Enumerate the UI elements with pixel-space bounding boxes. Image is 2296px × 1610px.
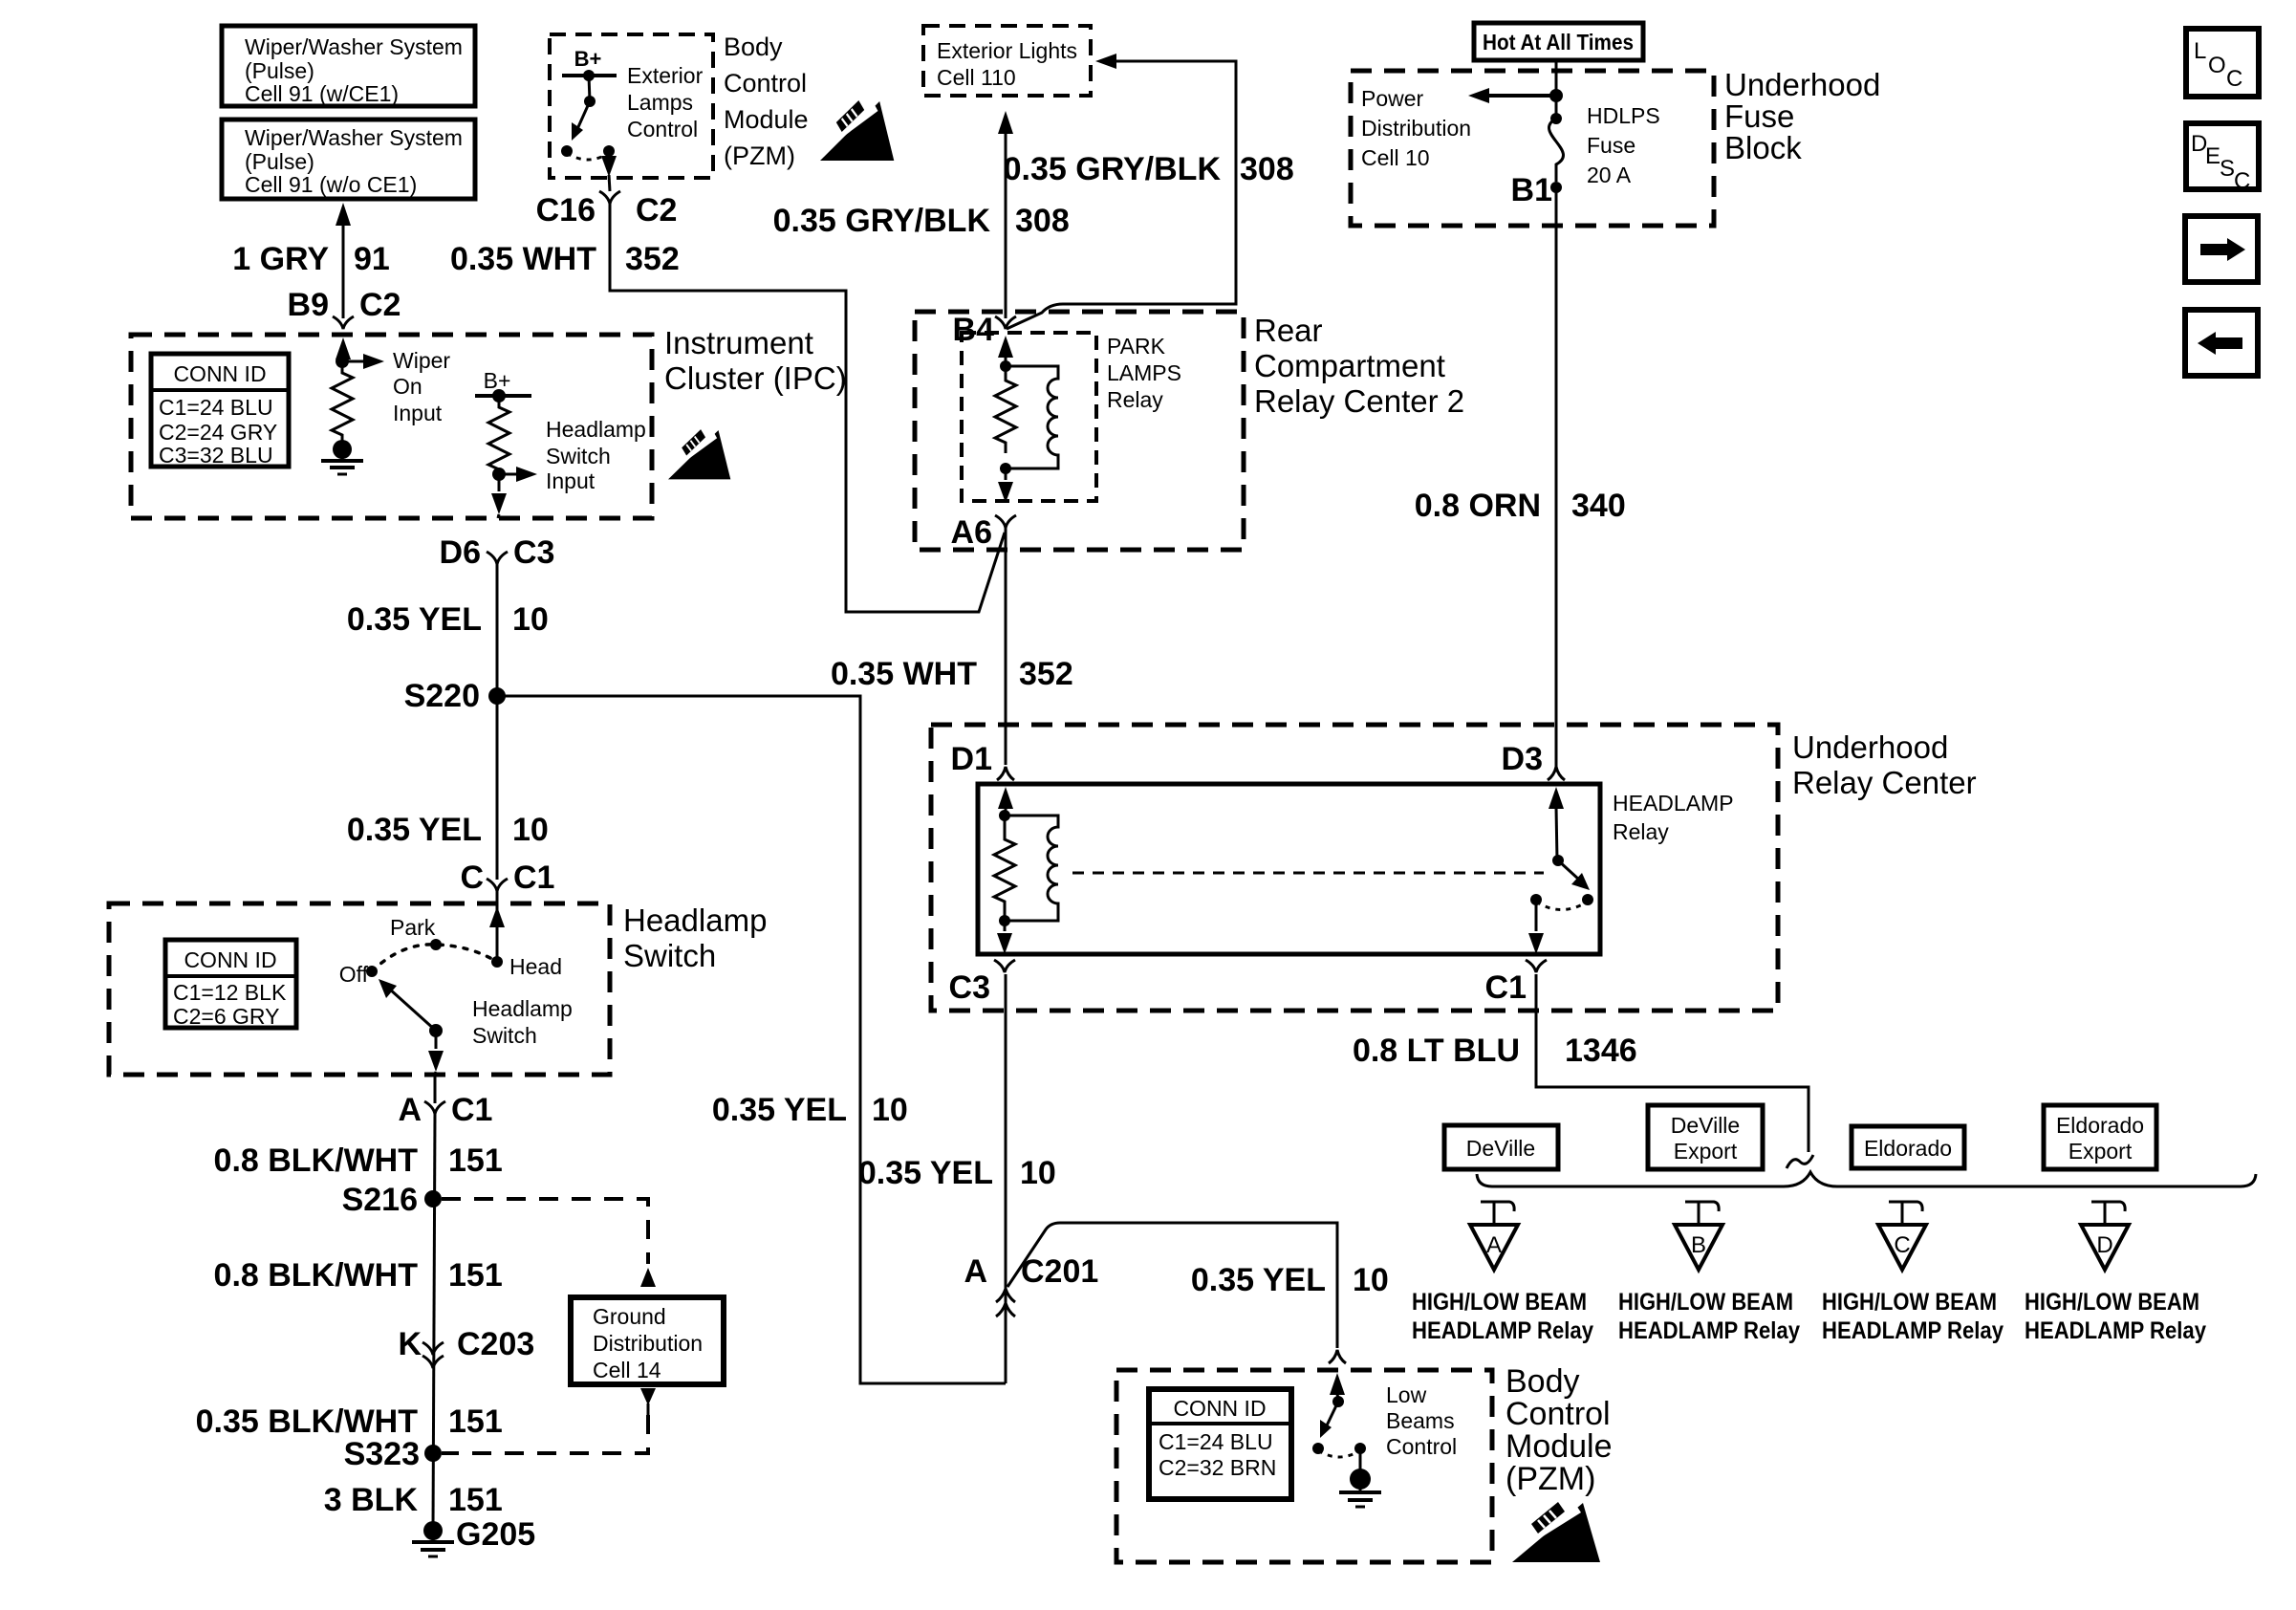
svg-text:A: A (964, 1253, 987, 1290)
wire: hot feed into fuse block (1555, 60, 1558, 96)
resistor: wiper-on pull-down (332, 365, 353, 441)
box: DeVille Export (1648, 1105, 1763, 1169)
label: Instrument Cluster (IPC) (664, 325, 847, 396)
svg-text:Low: Low (1386, 1382, 1427, 1407)
CONN ID table (BCM): C1=24 BLU C2=32 BRN (1149, 1389, 1291, 1499)
svg-text:C2=6 GRY: C2=6 GRY (173, 1004, 279, 1029)
box: Ground Distribution Cell 14 (571, 1297, 724, 1384)
coil: headlamp relay (1005, 816, 1058, 921)
svg-text:D6: D6 (440, 534, 481, 571)
branch C: connector flag (1889, 1202, 1922, 1225)
svg-text:0.35 WHT: 0.35 WHT (450, 241, 596, 277)
svg-text:151: 151 (448, 1403, 503, 1440)
relay contacts + dashed arc (1530, 894, 1593, 910)
svg-text:Cell 91 (w/o CE1): Cell 91 (w/o CE1) (245, 172, 417, 197)
resistor: park lamps relay coil suppressor (995, 366, 1016, 453)
wire: C1 down/right to brace (0.8 LT BLU) (1536, 974, 1809, 1152)
dashed reference: Ground Distribution to S323 (442, 1388, 656, 1453)
module box: Headlamp Switch (109, 903, 610, 1075)
svg-text:Relay: Relay (1107, 387, 1163, 412)
svg-text:HEADLAMP Relay: HEADLAMP Relay (1412, 1317, 1593, 1344)
branch D: connector flag (2091, 1202, 2125, 1225)
node: dot on B+ bar (492, 389, 506, 402)
wire: A6 to D1 (0.35 WHT) (1005, 528, 1007, 765)
svg-text:LAMPS: LAMPS (1107, 360, 1181, 385)
ESD symbol (BCM top) (820, 99, 894, 161)
fuse: HDLPS Fuse 20 A (1549, 96, 1563, 193)
svg-text:Cell 110: Cell 110 (937, 65, 1016, 90)
svg-text:C1: C1 (451, 1092, 492, 1128)
svg-text:Park: Park (390, 915, 436, 940)
svg-text:HIGH/LOW BEAM: HIGH/LOW BEAM (2025, 1289, 2199, 1316)
label: 0.35 YEL 10 (upper) (347, 601, 549, 638)
box: Eldorado Export (2044, 1105, 2156, 1169)
label: Headlamp Switch (inner) (472, 996, 573, 1048)
node S216 (splice) (342, 1182, 442, 1218)
svg-text:C3: C3 (513, 534, 554, 571)
svg-text:0.35 BLK/WHT: 0.35 BLK/WHT (196, 1403, 419, 1440)
svg-text:Headlamp: Headlamp (472, 996, 573, 1021)
branch B: connector flag (1685, 1202, 1719, 1225)
svg-text:10: 10 (1353, 1262, 1389, 1298)
svg-text:C: C (1894, 1232, 1910, 1258)
svg-text:Hot At All Times: Hot At All Times (1483, 30, 1634, 54)
box: Eldorado (1852, 1126, 1964, 1168)
label: 0.35 GRY/BLK 308 (left) (773, 203, 1070, 239)
svg-text:Module: Module (724, 105, 809, 134)
svg-text:Headlamp: Headlamp (623, 903, 767, 938)
label: 0.8 ORN 340 (1415, 488, 1626, 524)
svg-text:0.35 WHT: 0.35 WHT (831, 656, 977, 692)
svg-text:CONN ID: CONN ID (1173, 1396, 1266, 1421)
svg-text:HEADLAMP Relay: HEADLAMP Relay (1618, 1317, 1800, 1344)
connector C16 C2 (536, 191, 678, 228)
box: Wiper/Washer System Cell 91 (w/o CE1) (222, 120, 475, 199)
svg-text:Cell 14: Cell 14 (593, 1358, 661, 1382)
node: junction dot headlamp switch input (492, 468, 506, 481)
svg-text:91: 91 (354, 241, 390, 277)
svg-text:Distribution: Distribution (593, 1331, 703, 1356)
svg-text:Control: Control (724, 69, 807, 98)
svg-text:C1: C1 (513, 859, 554, 896)
wire + arrow down: IPC output D6 (491, 474, 507, 518)
box: DeVille (1444, 1125, 1558, 1169)
svg-text:HEADLAMP Relay: HEADLAMP Relay (2025, 1317, 2206, 1344)
wire: C1 into headlamp switch (496, 891, 499, 962)
relay switch: moving contact (1552, 855, 1590, 890)
wire: return loop into Exterior Lights (arrow left) (1007, 54, 1236, 329)
svg-text:E: E (2205, 143, 2220, 169)
svg-text:Off: Off (339, 962, 369, 987)
svg-text:Control: Control (1386, 1434, 1457, 1459)
connector D6 C3 (440, 534, 555, 571)
svg-text:20 A: 20 A (1587, 163, 1632, 187)
label: 0.8 BLK/WHT 151 (lower) (214, 1257, 503, 1294)
svg-text:(PZM): (PZM) (724, 141, 795, 170)
svg-text:Wiper/Washer System: Wiper/Washer System (245, 125, 463, 150)
svg-text:B9: B9 (288, 287, 329, 323)
svg-text:Underhood: Underhood (1792, 729, 1948, 765)
svg-text:B1: B1 (1511, 172, 1552, 208)
svg-text:L: L (2194, 38, 2206, 64)
label: 0.35 YEL 10 (S220 branch) (712, 1092, 908, 1128)
svg-text:HDLPS: HDLPS (1587, 103, 1660, 128)
svg-text:D1: D1 (951, 741, 992, 777)
label: Body Control Module (PZM) (724, 33, 809, 170)
svg-text:S216: S216 (342, 1182, 418, 1218)
ground G205 (412, 1516, 535, 1556)
svg-text:Relay: Relay (1613, 819, 1669, 844)
node: relay coil bottom dot (1000, 463, 1011, 474)
svg-text:CONN ID: CONN ID (173, 361, 266, 386)
svg-text:C1=24 BLU: C1=24 BLU (159, 395, 273, 420)
arrow down: relay coil return (997, 921, 1012, 954)
svg-text:Switch: Switch (472, 1023, 537, 1048)
svg-text:C: C (2234, 168, 2250, 194)
arrow up inside PARK relay (998, 336, 1013, 366)
svg-text:Cluster (IPC): Cluster (IPC) (664, 360, 847, 396)
branch B: label HIGH/LOW BEAM HEADLAMP Relay (1618, 1289, 1800, 1344)
node: headlamp relay coil top dot (999, 810, 1010, 821)
label: HDLPS Fuse 20 A (1587, 103, 1660, 187)
svg-text:Cell 91 (w/CE1): Cell 91 (w/CE1) (245, 81, 399, 106)
svg-text:0.8 BLK/WHT: 0.8 BLK/WHT (214, 1257, 419, 1294)
svg-text:Input: Input (546, 468, 596, 493)
svg-text:Cell 10: Cell 10 (1361, 145, 1430, 170)
label: Rear Compartment Relay Center 2 (1254, 313, 1464, 419)
node: headlamp switch pivot (429, 1024, 443, 1037)
svg-text:K: K (398, 1326, 422, 1362)
svg-text:(Pulse): (Pulse) (245, 149, 314, 174)
svg-text:Underhood: Underhood (1724, 67, 1880, 102)
svg-text:0.8 LT BLU: 0.8 LT BLU (1353, 1033, 1520, 1069)
svg-text:A6: A6 (951, 514, 992, 551)
ESD symbol (IPC) (668, 428, 730, 479)
svg-text:Ground: Ground (593, 1304, 666, 1329)
label: 0.35 YEL 10 (low beams) (1191, 1262, 1389, 1298)
svg-text:0.8 ORN: 0.8 ORN (1415, 488, 1541, 524)
CONN ID table (headlamp switch): C1=12 BLK C2=6 GRY (165, 940, 296, 1029)
wire: B+ bar (475, 394, 531, 398)
branch A: triangle connector (1470, 1225, 1518, 1270)
label: Underhood Fuse Block (1724, 67, 1880, 165)
svg-text:Power: Power (1361, 86, 1424, 111)
arrow down: park relay output (998, 468, 1013, 503)
svg-text:C: C (460, 859, 484, 896)
connector A C201 (964, 1253, 1098, 1316)
connector pin D3 (1502, 741, 1565, 780)
svg-text:CONN ID: CONN ID (184, 947, 276, 972)
wire: B+ bar (BCM) (562, 74, 617, 77)
connector pin D1 (951, 741, 1014, 780)
svg-text:10: 10 (872, 1092, 908, 1128)
wire: C16/C2 to A6 (0.35 WHT) (610, 204, 1005, 612)
arrow left: to Power Distribution (1468, 88, 1563, 103)
label: Low Beams Control (1386, 1382, 1457, 1459)
svg-text:308: 308 (1240, 151, 1294, 187)
module box: Rear Compartment Relay Center 2 (915, 312, 1244, 550)
svg-text:10: 10 (512, 601, 549, 638)
svg-text:D3: D3 (1502, 741, 1543, 777)
box: Exterior Lights Cell 110 (923, 26, 1091, 96)
branch D: triangle connector (2081, 1225, 2129, 1270)
wire: S220 down to headlamp switch (496, 696, 499, 880)
svg-text:B: B (1691, 1232, 1706, 1258)
svg-text:Lamps: Lamps (627, 90, 693, 115)
label: HEADLAMP Relay (1613, 791, 1734, 844)
arrow right: Wiper On Input (342, 354, 384, 369)
svg-text:Control: Control (1505, 1396, 1611, 1432)
resistor: headlamp relay suppressor (994, 816, 1015, 920)
svg-text:C3: C3 (949, 969, 990, 1006)
svg-text:352: 352 (1019, 656, 1073, 692)
arrow up: low beams input (1330, 1373, 1345, 1402)
svg-text:Exterior Lights: Exterior Lights (937, 38, 1077, 63)
svg-text:C1: C1 (1485, 969, 1527, 1006)
connector pin C1 (1485, 960, 1547, 1006)
svg-text:Wiper/Washer System: Wiper/Washer System (245, 34, 463, 59)
connector pin C3 (949, 960, 1015, 1006)
svg-text:A: A (398, 1092, 422, 1128)
branch D: label HIGH/LOW BEAM HEADLAMP Relay (2025, 1289, 2206, 1344)
svg-text:HEADLAMP Relay: HEADLAMP Relay (1822, 1317, 2004, 1344)
label: Underhood Relay Center (1792, 729, 1977, 800)
node: junction dot wiper-on (336, 355, 349, 368)
svg-text:C1=12 BLK: C1=12 BLK (173, 980, 287, 1005)
legend box: LOC (2186, 29, 2259, 97)
svg-text:HIGH/LOW BEAM: HIGH/LOW BEAM (1822, 1289, 1997, 1316)
svg-text:G205: G205 (456, 1516, 535, 1553)
switch position labels: Park Off Head (339, 915, 562, 987)
connector A C1 (headlamp switch) (398, 1075, 492, 1128)
wiper-on input circuit: arrow up (336, 337, 351, 365)
legend box: DESC (2186, 123, 2259, 194)
relay box: HEADLAMP Relay (978, 784, 1600, 954)
wire: A/C1 to G205 (433, 1114, 435, 1531)
svg-text:0.35 YEL: 0.35 YEL (712, 1092, 847, 1128)
label: PARK LAMPS Relay (1107, 334, 1181, 412)
svg-text:10: 10 (512, 812, 549, 848)
branch A: label HIGH/LOW BEAM HEADLAMP Relay (1412, 1289, 1593, 1344)
box: Hot At All Times (1474, 23, 1643, 60)
svg-text:308: 308 (1015, 203, 1070, 239)
svg-text:A: A (1486, 1232, 1502, 1258)
svg-text:C16: C16 (536, 192, 596, 228)
wire: C3 down to C201 (1005, 974, 1007, 1383)
svg-text:O: O (2208, 53, 2226, 78)
branch C: triangle connector (1878, 1225, 1926, 1270)
svg-text:151: 151 (448, 1482, 503, 1518)
label: 1 GRY 91 (232, 241, 390, 277)
dashed arc: headlamp switch travel (372, 945, 497, 971)
label: 0.35 WHT 352 (middle) (831, 656, 1073, 692)
wire: fuse B1 down to D3 (0.8 ORN) (1555, 187, 1558, 767)
svg-text:Fuse: Fuse (1587, 133, 1635, 158)
svg-text:Eldorado: Eldorado (2056, 1113, 2144, 1138)
label: 0.35 WHT 352 (top) (450, 241, 680, 277)
node S220 (splice) (404, 678, 506, 714)
switch contact dots: Off Park Head (366, 939, 503, 977)
svg-text:C201: C201 (1021, 1253, 1098, 1290)
dashed link: relay coil to contacts (1072, 872, 1544, 875)
svg-text:Rear: Rear (1254, 313, 1323, 348)
arrow up on Head wire (489, 906, 505, 962)
svg-text:Relay Center 2: Relay Center 2 (1254, 383, 1464, 419)
label: Headlamp Switch (title) (623, 903, 767, 973)
svg-text:C1=24 BLU: C1=24 BLU (1159, 1429, 1273, 1454)
svg-text:DeVille: DeVille (1466, 1136, 1535, 1161)
svg-text:1 GRY: 1 GRY (232, 241, 329, 277)
svg-text:B4: B4 (953, 312, 995, 348)
connector B9 C2 (288, 287, 401, 329)
node: relay coil top dot (1000, 360, 1011, 372)
svg-text:Body: Body (724, 33, 783, 61)
svg-text:0.35 YEL: 0.35 YEL (858, 1155, 993, 1191)
svg-text:Headlamp: Headlamp (546, 417, 646, 442)
svg-text:Export: Export (2069, 1139, 2133, 1164)
wire: S220 branch right and down to C201 corner (497, 696, 1006, 1383)
wire break squiggle (1787, 1155, 1813, 1168)
connector pin A6 (951, 514, 1016, 551)
label: Exterior Lamps Control (627, 63, 704, 141)
wire + arrow up: to Exterior Lights (0.35 GRY/BLK) (998, 111, 1013, 318)
legend box: arrow right (2185, 216, 2258, 282)
wire: 1 GRY 91 to wiper/washer system (arrow up) (336, 203, 351, 318)
switch: low beams control (1312, 1396, 1366, 1457)
svg-text:C: C (2226, 66, 2242, 92)
svg-text:Switch: Switch (546, 444, 611, 468)
branch A: connector flag (1481, 1202, 1514, 1225)
svg-text:Eldorado: Eldorado (1864, 1136, 1952, 1161)
svg-text:Head: Head (509, 954, 562, 979)
svg-text:C3=32 BLU: C3=32 BLU (159, 443, 273, 468)
svg-text:S220: S220 (404, 678, 480, 714)
label: 0.8 BLK/WHT 151 (upper) (214, 1142, 503, 1179)
box: Wiper/Washer System Cell 91 (w/CE1) (222, 26, 475, 106)
label: 0.8 LT BLU 1346 (1353, 1033, 1637, 1069)
ground: low beams control (internal) (1339, 1448, 1381, 1507)
wire: C201 branch to low beams control (1007, 1223, 1337, 1348)
svg-text:Instrument: Instrument (664, 325, 813, 360)
svg-text:Export: Export (1674, 1139, 1738, 1164)
label: Headlamp Switch Input (546, 417, 646, 493)
label: Body Control Module (PZM) bottom (1505, 1363, 1613, 1497)
svg-text:Module: Module (1505, 1428, 1613, 1465)
module box: Instrument Cluster (IPC) (131, 335, 652, 518)
label: 3 BLK 151 (324, 1482, 503, 1518)
svg-text:Switch: Switch (623, 938, 716, 973)
branch C: label HIGH/LOW BEAM HEADLAMP Relay (1822, 1289, 2004, 1344)
connector K C203 (398, 1326, 534, 1368)
svg-text:On: On (393, 374, 422, 399)
brace over model branches (1477, 1172, 2256, 1186)
svg-text:Beams: Beams (1386, 1408, 1455, 1433)
node S323 (splice) (344, 1436, 442, 1472)
resistor: headlamp switch input pull-up (488, 396, 509, 474)
arrow up into relay (contact side) (1549, 787, 1564, 860)
svg-text:10: 10 (1020, 1155, 1056, 1191)
arrow up into relay (coil side) (998, 787, 1013, 816)
module box: Body Control Module (PZM) top (550, 34, 713, 178)
module box: Underhood Fuse Block (1351, 71, 1714, 226)
connector C2 (low beams BCM) (1329, 1350, 1346, 1363)
label: 0.35 BLK/WHT 151 (196, 1403, 503, 1440)
svg-text:C2=32 BRN: C2=32 BRN (1159, 1455, 1276, 1480)
svg-text:352: 352 (625, 241, 680, 277)
svg-text:151: 151 (448, 1142, 503, 1179)
switch: exterior lamps control (561, 76, 615, 160)
label: 0.35 YEL 10 (C3 branch) (858, 1155, 1056, 1191)
svg-text:C2=24 GRY: C2=24 GRY (159, 420, 277, 445)
svg-text:340: 340 (1571, 488, 1626, 524)
svg-text:Body: Body (1505, 1363, 1580, 1400)
svg-text:0.35 GRY/BLK: 0.35 GRY/BLK (773, 203, 991, 239)
svg-text:C203: C203 (457, 1326, 534, 1362)
node: dot on B+ bar (BCM) (583, 70, 595, 81)
svg-text:HEADLAMP: HEADLAMP (1613, 791, 1734, 816)
svg-text:Control: Control (627, 117, 698, 141)
svg-text:(Pulse): (Pulse) (245, 58, 314, 83)
ESD symbol (BCM bottom) (1512, 1501, 1600, 1562)
coil: park lamps relay (1006, 366, 1058, 468)
svg-text:S323: S323 (344, 1436, 420, 1472)
svg-text:D: D (2096, 1232, 2112, 1258)
legend box: arrow left (2185, 310, 2258, 376)
svg-text:B+: B+ (574, 47, 602, 71)
svg-text:Distribution: Distribution (1361, 116, 1471, 141)
svg-text:0.35 YEL: 0.35 YEL (1191, 1262, 1326, 1298)
wire + arrow down: switch output (428, 1031, 444, 1075)
arrow down: relay output (1528, 900, 1544, 954)
dashed reference: S216 to Ground Distribution (442, 1199, 656, 1287)
svg-text:Block: Block (1724, 130, 1802, 165)
svg-text:B+: B+ (484, 368, 511, 393)
svg-text:0.35 GRY/BLK: 0.35 GRY/BLK (1004, 151, 1222, 187)
svg-text:HIGH/LOW BEAM: HIGH/LOW BEAM (1618, 1289, 1793, 1316)
module box: Body Control Module (PZM) bottom (1116, 1370, 1492, 1562)
svg-text:0.8 BLK/WHT: 0.8 BLK/WHT (214, 1142, 419, 1179)
svg-text:3 BLK: 3 BLK (324, 1482, 419, 1518)
svg-text:S: S (2220, 156, 2235, 182)
svg-text:Input: Input (393, 401, 443, 425)
svg-text:(PZM): (PZM) (1505, 1461, 1595, 1497)
label: 0.35 GRY/BLK 308 (right) (1004, 151, 1294, 187)
CONN ID table (IPC): C1=24 BLU C2=24 GRY C3=32 BLU (151, 354, 289, 468)
svg-text:C2: C2 (636, 192, 677, 228)
svg-text:HIGH/LOW BEAM: HIGH/LOW BEAM (1412, 1289, 1587, 1316)
svg-text:Exterior: Exterior (627, 63, 704, 88)
svg-text:151: 151 (448, 1257, 503, 1294)
connector pin B4 (953, 312, 1016, 348)
label: Power Distribution Cell 10 (1361, 86, 1471, 170)
label: Wiper On Input (393, 348, 450, 425)
node: headlamp relay coil bottom dot (999, 915, 1010, 926)
svg-text:0.35 YEL: 0.35 YEL (347, 812, 482, 848)
svg-text:1346: 1346 (1565, 1033, 1637, 1069)
svg-text:Relay Center: Relay Center (1792, 765, 1977, 800)
svg-text:Fuse: Fuse (1724, 98, 1794, 134)
svg-text:Wiper: Wiper (393, 348, 450, 373)
switch wiper arm: headlamp switch (points to Off) (379, 979, 436, 1031)
svg-text:C2: C2 (359, 287, 401, 323)
module box: Underhood Relay Center (931, 725, 1778, 1011)
svg-text:PARK: PARK (1107, 334, 1166, 359)
svg-text:Compartment: Compartment (1254, 348, 1445, 383)
arrow right: Headlamp Switch Input (499, 467, 537, 482)
relay box: PARK LAMPS Relay (962, 333, 1096, 501)
label: 0.35 YEL 10 (lower) (347, 812, 549, 848)
wire + arrow down: exterior lamps control output (601, 151, 617, 191)
